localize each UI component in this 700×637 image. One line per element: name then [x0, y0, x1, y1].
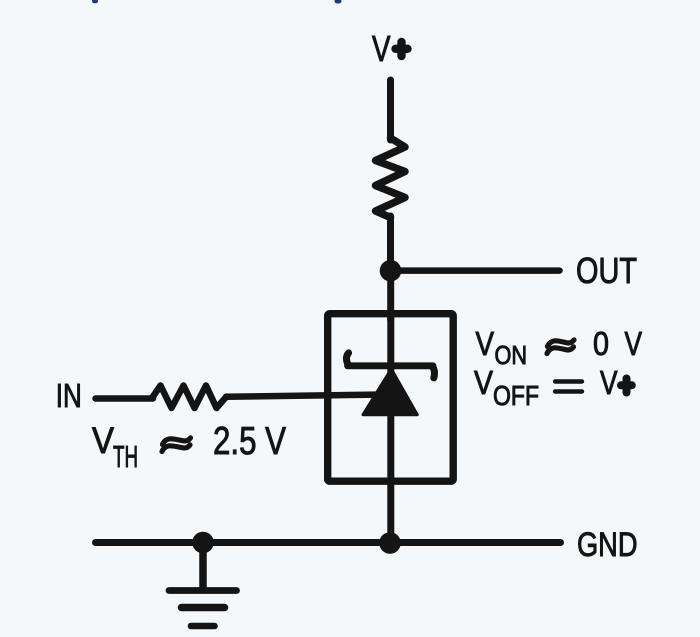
annotation VON ≈ 0 V [476, 325, 643, 370]
zener diode D1 cathode bar [348, 362, 434, 369]
ground stub wire [199, 548, 207, 589]
node OUT junction dot [380, 260, 402, 282]
svg-text:TH: TH [113, 439, 138, 474]
svg-text:V: V [92, 419, 114, 461]
wire OUT [398, 267, 560, 274]
resistor R2 [152, 386, 227, 409]
svg-text:V: V [600, 364, 618, 401]
zener diode D1 right hook [433, 367, 435, 378]
wire OUT node to comparator box [387, 279, 394, 320]
resistor R1 [376, 138, 406, 218]
power label V+ [372, 28, 408, 69]
ground symbol bar 2 [182, 604, 225, 612]
zener diode D1 left hook [346, 353, 348, 365]
cropped blue title remnant 2 [335, 0, 342, 4]
annotation VOFF = V+ [474, 364, 632, 411]
GND rail wire [96, 539, 561, 546]
svg-text:0: 0 [593, 325, 609, 362]
node ground tap junction dot [192, 532, 214, 554]
zener diode D1 triangle (anode) [363, 369, 417, 415]
svg-text:2.5 V: 2.5 V [213, 420, 286, 463]
svg-text:GND: GND [577, 526, 638, 564]
svg-text:V: V [476, 325, 495, 362]
wire resistor R1 to OUT node [387, 216, 394, 266]
wire through box (cathode to anode to bottom) [387, 318, 394, 540]
svg-text:V: V [625, 325, 643, 362]
ground symbol bar 1 [169, 587, 237, 594]
svg-text:IN: IN [56, 377, 82, 414]
svg-text:ON: ON [495, 340, 528, 370]
node bottom junction dot [379, 532, 401, 554]
svg-text:V: V [372, 28, 391, 69]
svg-text:OFF: OFF [493, 380, 539, 411]
wire V+ to resistor R1 [387, 80, 394, 140]
wire resistor R2 to diode anode [226, 395, 376, 397]
svg-text:V: V [474, 364, 493, 401]
cropped blue title remnant 1 [92, 0, 98, 3]
wire IN to resistor R2 [96, 395, 154, 402]
annotation VTH ≈ 2.5 V [92, 419, 286, 474]
svg-text:OUT: OUT [576, 250, 637, 291]
IC box U1 [328, 314, 454, 482]
ground symbol bar 3 [191, 623, 215, 630]
